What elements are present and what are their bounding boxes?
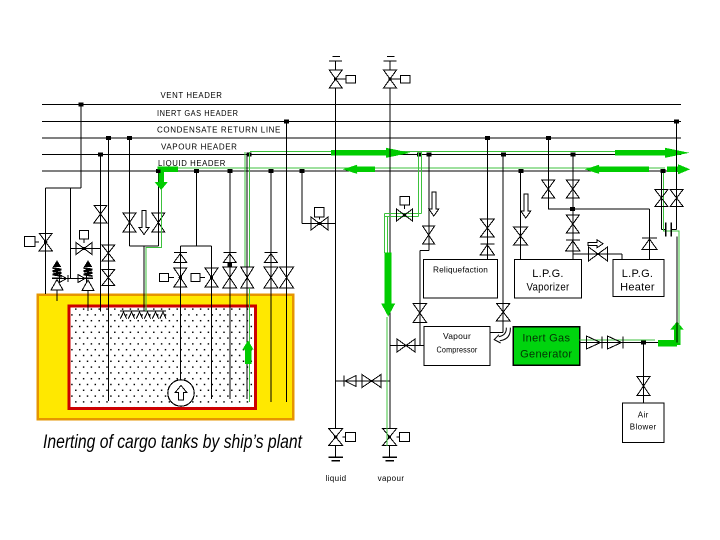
svg-text:INERT GAS HEADER: INERT GAS HEADER: [157, 109, 239, 118]
svg-text:Heater: Heater: [620, 282, 655, 294]
wire vaporizer to heater y=254: [573, 253, 622, 255]
valve V14 on manifold: [362, 375, 372, 388]
junction on liquid header x=270.9: [268, 169, 273, 173]
valve V9: [223, 267, 237, 278]
check valve pointing left on manifold: [343, 376, 345, 387]
svg-text:Inerting of cargo tanks by shi: Inerting of cargo tanks by ship’s plant: [43, 431, 303, 453]
curved flow arrow at compressor discharge: [499, 328, 507, 337]
svg-text:Reliquefaction: Reliquefaction: [433, 266, 488, 275]
green suction horizontal pair y=215: [385, 212, 422, 214]
green feed elbow with down arrow from liquid header: [158, 167, 178, 173]
valve V3: [94, 205, 107, 214]
valve V22: [480, 219, 494, 228]
LPG heater box: [613, 260, 664, 297]
inline fitting (black) on x=229.8: [228, 262, 233, 267]
small check valve b on relief manifold: [78, 275, 85, 283]
junction to air blower: [641, 341, 646, 345]
valve V4 upper: [102, 245, 115, 253]
wire bottom manifold y=381: [336, 380, 390, 382]
compressor suction manifold wire: [390, 345, 424, 347]
check valve into reliquefaction: [480, 243, 494, 245]
discharge elbow into compressor: [490, 331, 503, 333]
svg-text:Compressor: Compressor: [437, 345, 478, 355]
valve V7 with actuator: [174, 268, 187, 278]
small check valve a on relief manifold: [60, 275, 67, 283]
spray header inside tank: [120, 310, 166, 312]
wire branch x=180 to tank pump: [179, 246, 181, 380]
hose connection fitting: [665, 223, 667, 237]
wire vent drop x=81: [80, 105, 82, 189]
green flow thick arrow on vapour header (right end, pointing right): [615, 150, 665, 156]
svg-text:Inert Gas: Inert Gas: [522, 333, 570, 345]
flow indicator hollow down arrow: [429, 192, 439, 216]
actuator box of V1: [25, 237, 36, 247]
svg-text:liquid: liquid: [325, 474, 346, 483]
atmospheric vent assembly A: [333, 56, 341, 58]
valve V2 (crossover) with actuator: [71, 248, 100, 250]
vapour compressor box U-COMP: [424, 327, 490, 366]
wire drop x=676.6 from inert gas header: [676, 122, 678, 230]
wire drop x=548.6: [548, 138, 550, 209]
valve V26: [514, 227, 528, 236]
inert gas header line: [42, 121, 681, 123]
valve V10 on return riser: [241, 267, 254, 278]
green suction drop pair x=419.5: [417, 152, 419, 216]
wire branch x=70.6: [70, 188, 72, 279]
valve V1 (motorized, tank vent): [39, 233, 52, 242]
svg-text:LIQUID HEADER: LIQUID HEADER: [158, 159, 226, 168]
green highlight on liquid riser: [663, 172, 679, 343]
wire: vapour riser x=390: [389, 88, 391, 429]
reliquefaction box: [424, 260, 498, 299]
flow indicator hollow right arrow: [588, 240, 603, 248]
air blower box: [623, 403, 665, 443]
valve V11: [264, 267, 278, 278]
green flow line along vapour header: [250, 151, 681, 153]
generator outlet wire: [580, 342, 678, 344]
valve V5: [123, 213, 136, 223]
wire drop x=429: [428, 155, 430, 251]
relief valve manifold wire: [57, 278, 88, 280]
check valve on vaporizer outlet: [566, 239, 580, 241]
check valve on x=180: [174, 252, 187, 254]
vapour header line: [42, 154, 681, 156]
junction on liquid header x=302: [300, 169, 305, 173]
junction on condensate line x=487.6: [485, 136, 490, 140]
svg-text:VENT HEADER: VENT HEADER: [161, 91, 223, 100]
wire manifold y=246: [130, 245, 159, 247]
green highlight pair on return riser: [244, 152, 246, 267]
svg-text:CONDENSATE RETURN LINE: CONDENSATE RETURN LINE: [157, 126, 281, 135]
green flow thick arrow on vapour header (mid, pointing right): [331, 150, 386, 156]
junction on vapour header x=419.5: [417, 153, 422, 157]
cargo tank shell (red) with dotted interior: [69, 306, 256, 409]
valve V6: [152, 213, 165, 223]
junction on inert gas header x=677: [674, 120, 679, 124]
check valve on x=270.9: [264, 252, 277, 254]
tank cargo pump (circle with up arrow): [168, 380, 194, 406]
junction on liquid header x=158: [156, 169, 161, 173]
valve V28: [637, 377, 650, 387]
junction on vapour header x=100: [98, 153, 103, 157]
green feed line down to spray header: [146, 189, 162, 311]
wire: liquid riser x=335.7 (vent to bottom manifold): [335, 88, 337, 429]
liquid header line: [42, 170, 681, 172]
check valve on x=229.8: [223, 252, 236, 254]
wire drop x=129.5: [129, 138, 131, 246]
green line along generator outlet: [580, 339, 656, 341]
check valve into heater x=649.5: [649, 209, 651, 260]
junction dot at green elbow (over green): [156, 170, 161, 173]
vapour line blank flange (ground bars): [382, 456, 396, 458]
relief valve RV2 (spring loaded): [85, 261, 92, 267]
inert gas generator box (active, green): [513, 327, 580, 366]
green flow line along liquid header: [160, 167, 665, 169]
svg-text:vapour: vapour: [378, 474, 405, 483]
condensate return line: [42, 137, 681, 139]
junction on liquid header x=229.8: [227, 169, 232, 173]
atmospheric vent assembly B: [387, 56, 395, 58]
LPG vaporizer box: [515, 260, 582, 299]
valve V18: [423, 226, 435, 235]
green suction line to bottom: [386, 317, 388, 446]
wire branch x=211.5 into tank: [211, 246, 213, 399]
junction y=209 x=572.5: [570, 207, 575, 211]
junction on liquid header x=196: [194, 169, 199, 173]
valve V16 (vapour, motorized): [389, 446, 391, 457]
junction on vapour header x=573: [571, 153, 576, 157]
cargo tank outer insulation (yellow): [38, 295, 293, 420]
svg-text:Air: Air: [638, 411, 649, 420]
valve V13 with actuator: [311, 217, 320, 230]
valve V8 with actuator: [205, 268, 218, 278]
wire drop x=270.9 (outside tank shell): [270, 171, 272, 402]
valve V19: [413, 304, 427, 314]
wire drop x=286.6 (outside tank shell): [286, 122, 288, 403]
compressor discharge wire x=503: [501, 153, 506, 157]
valve V27 on crossover: [589, 247, 599, 261]
green flow thick arrow on liquid header (mid, pointing left): [357, 167, 375, 173]
junction on inert gas header x=286.6: [284, 120, 289, 124]
valve V29 on liquid riser: [655, 190, 668, 199]
check valve 1 on generator outlet: [587, 336, 601, 349]
wire drop x=108 into tank: [107, 138, 109, 401]
junction on vent header: [79, 103, 84, 107]
junction on vapour header x=249 (green riser): [247, 153, 252, 157]
junction on liquid header x=521: [519, 169, 524, 173]
wire manifold y=209: [548, 208, 649, 210]
wire to spray header: [143, 246, 145, 311]
flow indicator hollow down arrow: [521, 194, 531, 218]
liquid line blank flange (ground bars): [329, 456, 343, 458]
junction on condensate line x=548.6: [546, 136, 551, 140]
svg-text:Blower: Blower: [630, 423, 657, 432]
svg-text:Generator: Generator: [520, 349, 572, 361]
wire jog left to x=419.8: [420, 250, 429, 252]
green suction drop pair x=386.5: [384, 213, 386, 253]
svg-text:Vapour: Vapour: [443, 331, 471, 341]
svg-text:L.P.G.: L.P.G.: [532, 268, 564, 280]
green flow thick arrow on liquid header (right-mid, pointing left): [599, 167, 649, 173]
wire down to tank valve: [45, 188, 47, 294]
wire U-manifold y=246: [180, 245, 211, 247]
valve V21 on discharge: [496, 303, 510, 312]
wire drop x=302: [301, 171, 303, 224]
valve V17 (motorized) on green suction: [397, 209, 405, 221]
wire drop x=158: [157, 171, 159, 246]
svg-text:Vaporizer: Vaporizer: [527, 282, 570, 294]
valve V23: [542, 180, 555, 189]
green highlight inside tank: [249, 288, 251, 402]
relief valve RV1 (spring loaded): [54, 261, 61, 267]
valve V4 lower: [102, 270, 115, 278]
valve V12: [280, 267, 294, 278]
valve V30 on inert gas riser: [670, 190, 683, 199]
wire drop x=573: [572, 155, 574, 260]
valve V15 (liquid, motorized): [335, 446, 337, 457]
green thick elbow with up arrow (generator discharge): [658, 340, 677, 347]
tank return riser (black): [246, 155, 248, 400]
flow indicator hollow down arrow: [139, 211, 149, 235]
svg-text:L.P.G.: L.P.G.: [622, 268, 654, 280]
junction on vapour header x=429: [427, 153, 432, 157]
wire to liquid riser: [302, 223, 336, 225]
check valve 2 on generator outlet: [608, 336, 622, 349]
junction on liquid header x=663: [661, 169, 666, 173]
condensate wire to reliquefaction: [487, 138, 489, 260]
riser to liquid header (black): [660, 171, 662, 230]
valve V24: [566, 180, 579, 189]
junction on condensate line x=108: [106, 136, 111, 140]
valve V25: [566, 215, 579, 224]
wire drop x=100: [100, 155, 102, 312]
wire drop x=521 into vaporizer: [520, 171, 522, 260]
green thick arrow up inside tank: [245, 350, 252, 365]
valve V20 on compressor suction: [397, 339, 406, 352]
green thick down arrow to compressor suction: [385, 253, 392, 304]
wire drop x=196: [195, 171, 197, 246]
air blower wire: [643, 343, 645, 404]
riser down to generator elbow (black): [676, 237, 678, 343]
green flow thick arrow on liquid header (right end, pointing right): [667, 167, 678, 173]
wire drop x=229.8 into tank: [229, 171, 231, 399]
wire elbow to left: [46, 187, 81, 189]
vent header line: [42, 104, 681, 106]
junction on condensate line x=129.5: [127, 136, 132, 140]
svg-text:VAPOUR HEADER: VAPOUR HEADER: [161, 142, 238, 151]
